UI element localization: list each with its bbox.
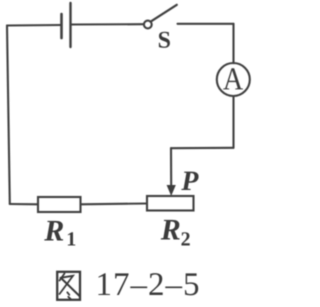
wiper arrowhead bbox=[167, 185, 176, 196]
battery cell short negative plate bbox=[60, 14, 63, 38]
wire R1 to R2 bbox=[81, 202, 148, 205]
resistor R1 box bbox=[38, 197, 81, 212]
switch S lever arm bbox=[151, 5, 177, 21]
caption character tu (drawn strokes) bbox=[57, 272, 80, 300]
label A (ammeter) bbox=[223, 68, 243, 89]
wire right vertical down to ammeter bbox=[232, 24, 234, 63]
rheostat R2 box bbox=[147, 196, 194, 211]
wire battery to switch bbox=[71, 23, 144, 25]
label P (wiper) bbox=[181, 172, 198, 190]
ammeter circle bbox=[217, 63, 250, 96]
wire wiper vertical bbox=[170, 148, 172, 187]
switch S pivot circle bbox=[144, 21, 152, 29]
wire below ammeter bbox=[232, 96, 234, 148]
caption text 17-2-5 bbox=[98, 273, 198, 295]
label S (switch) bbox=[159, 32, 170, 48]
label R2 subscript 2 bbox=[181, 232, 189, 245]
wire switch to top-right corner bbox=[178, 23, 234, 25]
wire horizontal toward wiper bbox=[171, 147, 234, 149]
label R1 subscript 1 bbox=[68, 232, 75, 245]
wire bottom-left corner to R1 bbox=[10, 203, 38, 205]
wire top-left horizontal bbox=[7, 24, 61, 27]
wire left vertical bbox=[7, 26, 10, 205]
battery cell long positive plate bbox=[69, 3, 71, 47]
label R2 letter bbox=[161, 220, 180, 240]
label R1 letter bbox=[44, 221, 63, 241]
